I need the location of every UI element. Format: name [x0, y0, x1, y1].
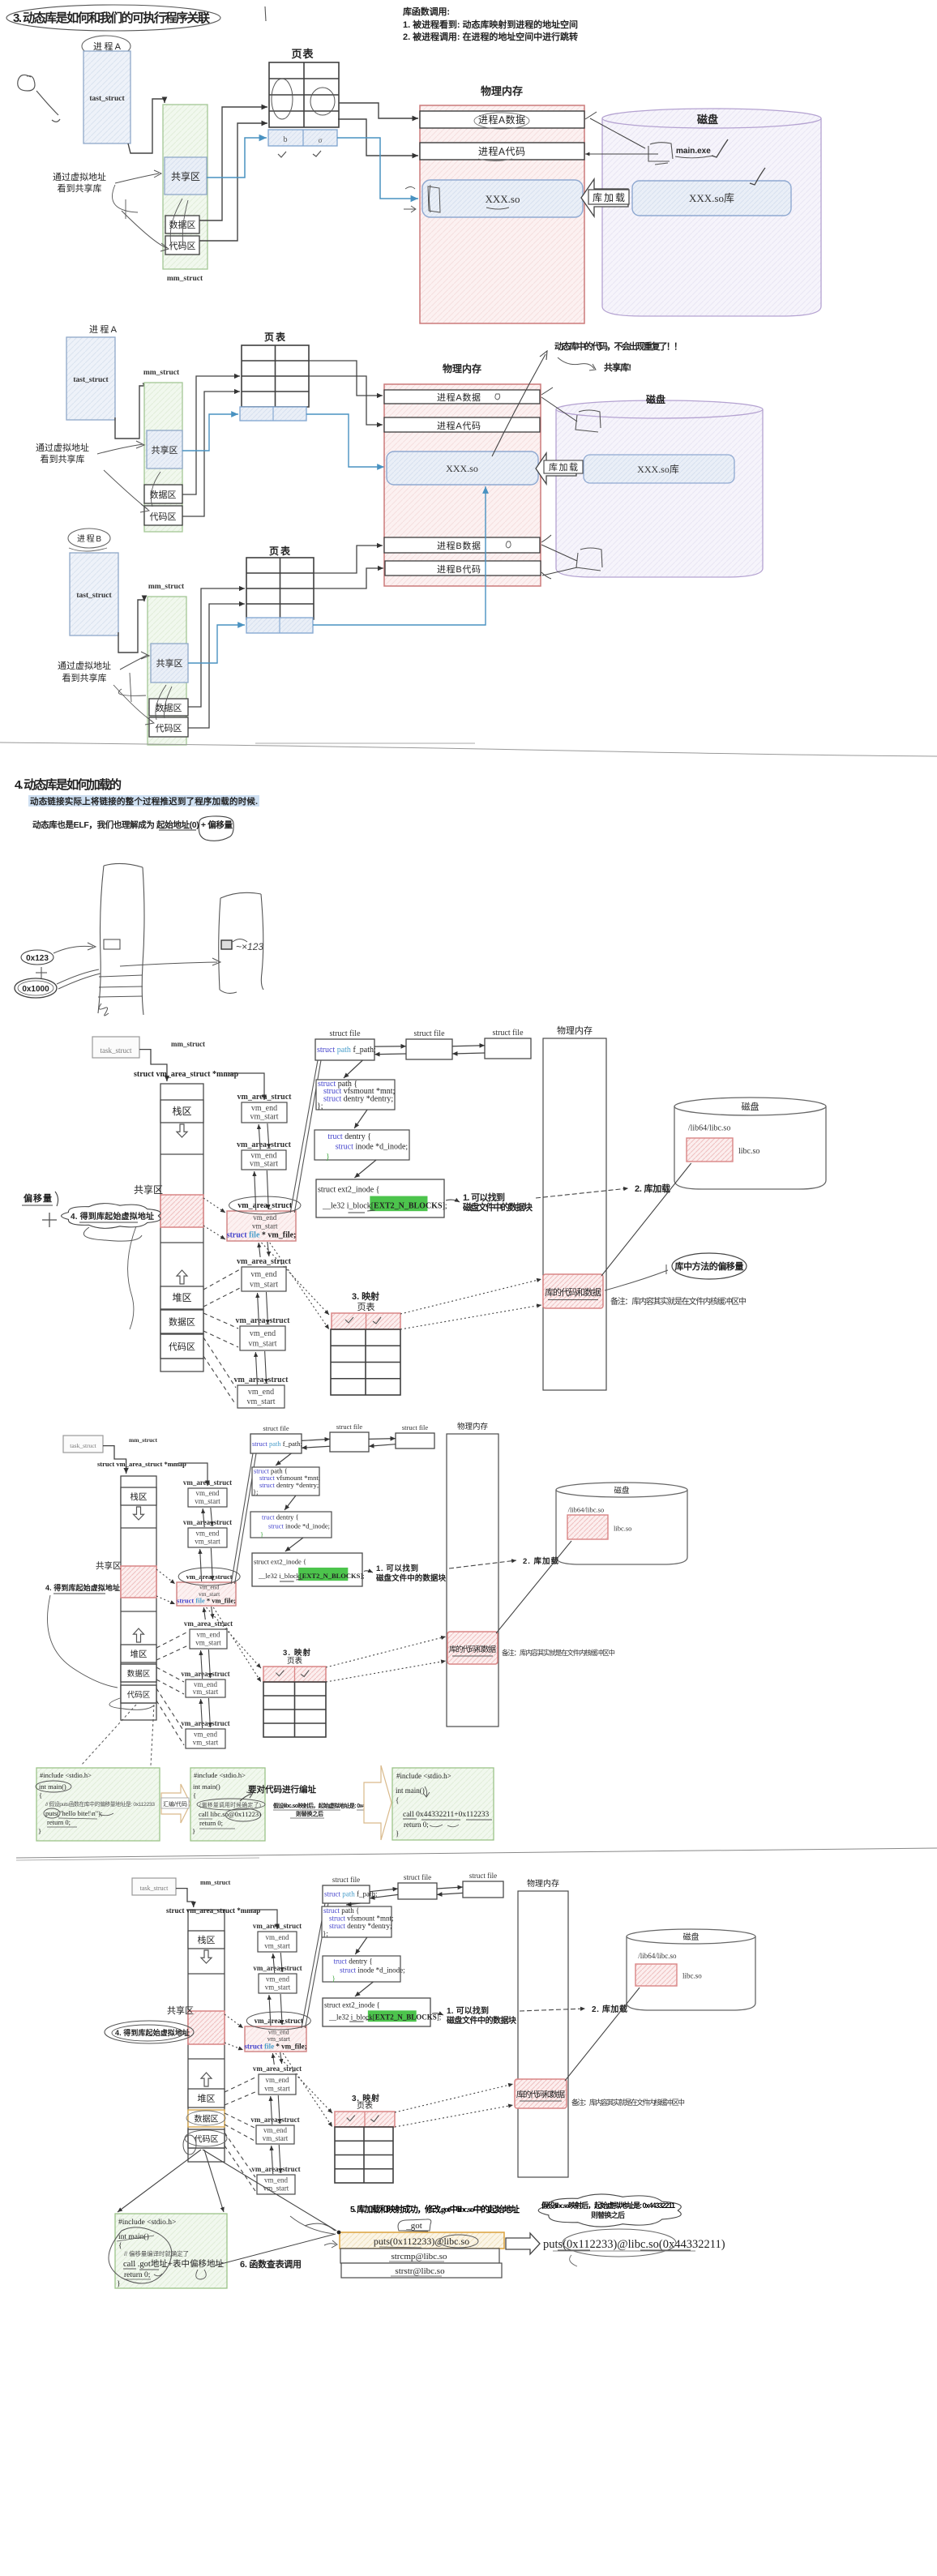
svg-text:#include <stdio.h>: #include <stdio.h>	[118, 2219, 176, 2227]
blue wire 共享区A2 -> blue row A2	[182, 414, 238, 451]
page table grid E	[331, 1329, 400, 1395]
blue wire blue row A2 -> XXX.so 2	[306, 414, 384, 467]
svg-text:__le32 i_block[EXT2_N_BLOCKS]: __le32 i_block[EXT2_N_BLOCKS];	[322, 1201, 447, 1210]
page table red row G	[335, 2112, 395, 2127]
big circle scribble on code box G	[109, 2227, 172, 2283]
svg-text:struct dentry *dentry;: struct dentry *dentry;	[323, 1094, 393, 1103]
dashed 数据区->vm5 E	[203, 1313, 238, 1329]
svg-text:磁盘: 磁盘	[645, 393, 665, 405]
blue wire blue row B -> XXX.so bottom	[313, 486, 486, 625]
svg-text:mm_struct: mm_struct	[148, 583, 185, 591]
check marks in red row E	[345, 1317, 353, 1323]
svg-text:库的代码和数据: 库的代码和数据	[545, 1286, 601, 1298]
svg-text:数据区: 数据区	[156, 702, 182, 713]
sketch lines bottom of left shape	[99, 975, 143, 977]
label box 库加载 (2)	[544, 460, 583, 473]
svg-text:vm_end: vm_end	[266, 2076, 289, 2084]
link vm2-vm3 G	[269, 1995, 271, 2026]
svg-text:struct vm_area_struct *mmap: struct vm_area_struct *mmap	[166, 1906, 260, 1915]
svg-text:vm_start: vm_start	[252, 1222, 278, 1230]
svg-text:1. 可以找到: 1. 可以找到	[447, 2005, 489, 2016]
svg-text:栈区: 栈区	[173, 1105, 192, 1117]
dashed 堆区->vm4 E	[203, 1269, 240, 1290]
svg-text:struct path f_path;: struct path f_path;	[317, 1046, 376, 1055]
green box mm B	[148, 597, 186, 745]
svg-text:struct ext2_inode {: struct ext2_inode {	[324, 2001, 380, 2009]
svg-text:call libc.so@0x11223): call libc.so@0x11223)	[199, 1810, 261, 1818]
underlines in final text	[558, 2249, 691, 2251]
svg-text:磁盘文件中的数据块: 磁盘文件中的数据块	[463, 1201, 533, 1213]
highlighted sentence	[28, 795, 259, 807]
svg-text:task_struct: task_struct	[101, 1046, 132, 1055]
red cell 共享区 F	[121, 1566, 156, 1598]
svg-text:动态库中的代码，不会出现重复了！！: 动态库中的代码，不会出现重复了！！	[554, 340, 682, 352]
svg-text:vm_end: vm_end	[194, 1731, 217, 1739]
svg-text:共享库!: 共享库!	[604, 362, 631, 373]
svg-text:__le32 i_block[EXT2_N_BLOCKS]: __le32 i_block[EXT2_N_BLOCKS];	[258, 1572, 365, 1580]
box 数据区 G	[188, 2110, 225, 2127]
svg-text:puts(0x112233)@libc.so(0x44332: puts(0x112233)@libc.so(0x44332211)	[543, 2238, 725, 2251]
scribble square near main.exe	[648, 143, 673, 161]
svg-text:共享区: 共享区	[156, 657, 183, 669]
wire 数据区B -> ptB	[188, 588, 245, 707]
disk E	[674, 1106, 826, 1189]
link vm3-vm4 E	[259, 1243, 260, 1257]
svg-text:磁盘文件中的数据块: 磁盘文件中的数据块	[447, 2015, 517, 2026]
disk red box libc.so F	[567, 1515, 608, 1539]
svg-text:进程A数据: 进程A数据	[437, 392, 481, 403]
svg-text:/lib64/libc.so: /lib64/libc.so	[638, 1952, 677, 1960]
page table red row F	[263, 1667, 326, 1682]
wire task->mm E	[139, 1050, 167, 1081]
struct dentry box G	[323, 1956, 400, 1982]
box 代码区 B	[149, 717, 188, 737]
task_struct box E	[92, 1037, 139, 1058]
svg-text:通过虚拟地址: 通过虚拟地址	[36, 442, 89, 453]
svg-text:}: }	[326, 1153, 330, 1162]
svg-text:物理内存: 物理内存	[557, 1025, 593, 1036]
hollow arrow 库加载 (2)	[536, 453, 576, 484]
svg-text:2. 库加载: 2. 库加载	[635, 1183, 670, 1194]
svg-text:struct file: struct file	[402, 1423, 429, 1431]
svg-text:vm_start: vm_start	[265, 1983, 291, 1992]
svg-text:libc.so: libc.so	[682, 1972, 702, 1980]
mm_struct outer green box	[163, 105, 208, 269]
svg-text:strstr@libc.so: strstr@libc.so	[395, 2266, 445, 2276]
link vm4-vm5 F	[201, 1650, 203, 1679]
svg-text:vm_end: vm_end	[250, 1270, 276, 1279]
diagonal vm3->file1 F	[231, 1453, 253, 1584]
svg-text:vm_area_struct: vm_area_struct	[253, 1964, 302, 1972]
cell divider G	[188, 1973, 225, 1975]
svg-text:栈区: 栈区	[130, 1491, 148, 1502]
lines bars -> square bottom	[541, 545, 577, 561]
svg-text:堆区: 堆区	[130, 1650, 148, 1659]
svg-text:6. 函数查表调用: 6. 函数查表调用	[240, 2258, 302, 2270]
svg-text:页表: 页表	[264, 331, 286, 343]
diagonal vm3->file1 E	[290, 1060, 318, 1213]
mm column E	[160, 1084, 203, 1371]
svg-text:代码区: 代码区	[156, 723, 182, 734]
svg-text:堆区: 堆区	[198, 2094, 216, 2104]
dotted pt->libbox F	[326, 1637, 446, 1667]
code box 2 rect	[190, 1768, 265, 1841]
svg-text:代码区: 代码区	[127, 1691, 151, 1700]
svg-text:库的代码和数据: 库的代码和数据	[516, 2089, 565, 2099]
svg-text:进程A代码: 进程A代码	[437, 421, 481, 431]
svg-text:vm_area_struct: vm_area_struct	[250, 2116, 299, 2124]
plus sign E	[49, 1213, 50, 1227]
ellipse around 代码区 G	[185, 2130, 227, 2146]
box 数据区 E	[160, 1310, 203, 1333]
svg-text:vm_start: vm_start	[249, 1340, 277, 1349]
svg-text:truct dentry {: truct dentry {	[327, 1132, 371, 1141]
page table A2	[242, 345, 309, 407]
box 数据区 A2	[144, 485, 182, 503]
cell divider E	[160, 1242, 203, 1243]
svg-text:vm_end: vm_end	[196, 1489, 220, 1497]
page table red row E	[332, 1313, 400, 1329]
mm column F	[121, 1476, 156, 1720]
svg-text:物理内存: 物理内存	[457, 1422, 488, 1431]
svg-text:struct file: struct file	[469, 1872, 497, 1880]
svg-text:vm_area_struct: vm_area_struct	[253, 1922, 302, 1930]
svg-text:tast_struct: tast_struct	[89, 95, 125, 103]
arrow file1->path E	[344, 1060, 362, 1078]
svg-text:struct dentry *dentry;: struct dentry *dentry;	[259, 1481, 319, 1489]
.got table row1 puts	[340, 2232, 504, 2249]
title ellipse scribble	[6, 5, 220, 31]
svg-text:vm_start: vm_start	[195, 1639, 221, 1647]
separator line 2	[255, 742, 475, 744]
wire task B -> mm B	[118, 600, 144, 653]
svg-text:vm_area_struct: vm_area_struct	[255, 2017, 303, 2025]
svg-text:struct inode *d_inode;: struct inode *d_inode;	[336, 1142, 409, 1151]
arrow ext2->annotation G	[432, 2013, 443, 2015]
struct path def box G	[322, 1906, 391, 1937]
box 库的代码和数据 G	[515, 2079, 567, 2108]
link vm4-vm5 E	[258, 1293, 259, 1325]
svg-text:备注：库内容其实就是在文件内核缓冲区中: 备注：库内容其实就是在文件内核缓冲区中	[571, 2098, 685, 2107]
scribble arrows B	[120, 652, 149, 670]
svg-text:vm_area_struct: vm_area_struct	[235, 1316, 290, 1325]
code box 3 rect	[392, 1768, 494, 1840]
box 栈区 F	[121, 1487, 156, 1505]
link vm3-vm4 G	[272, 2053, 274, 2065]
svg-text:共享区: 共享区	[134, 1183, 163, 1196]
line libbox->bubble E	[605, 1264, 668, 1290]
wire task->mm F	[103, 1446, 126, 1474]
page table A scribbled zeros	[272, 79, 293, 119]
svg-text:磁盘: 磁盘	[742, 1101, 759, 1112]
svg-text:vm_end: vm_end	[266, 1933, 289, 1941]
checkmark above XXX.so库	[750, 168, 765, 185]
svg-text:#include <stdio.h>: #include <stdio.h>	[194, 1771, 246, 1779]
link vm2-vm3 E	[255, 1171, 256, 1210]
svg-text:vm_area_struct: vm_area_struct	[233, 1376, 289, 1384]
curved arrow to annotation	[492, 351, 547, 456]
svg-text:vm_end: vm_end	[264, 2176, 288, 2184]
svg-text:代码区: 代码区	[195, 2135, 219, 2145]
struct ext2_inode box F	[252, 1553, 362, 1586]
box XXX.so (A mem)	[422, 180, 583, 217]
svg-text:堆区: 堆区	[173, 1292, 192, 1303]
sketch left tall shape	[98, 866, 104, 1013]
box 代码区 G	[188, 2129, 225, 2148]
box tast_struct A2	[66, 337, 115, 420]
struct dentry box F	[250, 1512, 332, 1538]
svg-text:XXX.so库: XXX.so库	[689, 192, 734, 204]
svg-text:{: {	[396, 1796, 399, 1804]
svg-text:页表: 页表	[287, 1656, 302, 1666]
dotted 共享区cell->vm3 E	[203, 1198, 225, 1213]
svg-text:vm_area_struct: vm_area_struct	[237, 1093, 292, 1102]
blue wire 共享区B -> blue row B	[188, 625, 245, 663]
svg-text:vm_area_struct: vm_area_struct	[253, 2065, 302, 2073]
struct path def box E	[316, 1080, 395, 1110]
svg-text:struct path {: struct path {	[323, 1906, 359, 1915]
bubble 库中方法的偏移量 E	[672, 1253, 747, 1279]
ellipse around 偏移量	[199, 816, 233, 841]
svg-text:共享区: 共享区	[171, 170, 200, 182]
svg-text:vm_start: vm_start	[264, 1942, 290, 1950]
dashed arrow ->2.库加载 E	[536, 1188, 628, 1198]
svg-text:数据区: 数据区	[169, 1316, 195, 1328]
svg-text:通过虚拟地址: 通过虚拟地址	[58, 660, 111, 671]
svg-text:vm_area_struct: vm_area_struct	[237, 1257, 292, 1266]
arrow dentry->ext2 G	[355, 1982, 374, 1996]
svg-text:#include <stdio.h>: #include <stdio.h>	[396, 1772, 451, 1780]
dotted vm3->pt E	[262, 1243, 330, 1315]
dotted pt->libbox E	[400, 1279, 541, 1314]
svg-text:vm_area_struct: vm_area_struct	[183, 1518, 232, 1526]
svg-text:task_struct: task_struct	[70, 1442, 96, 1449]
cell divider G	[188, 2058, 225, 2060]
arrows file2-file3 G	[437, 1887, 463, 1889]
arrows file1-file2 F	[302, 1439, 330, 1440]
svg-text:libc.so: libc.so	[738, 1147, 759, 1156]
svg-text:vm_end: vm_end	[266, 1975, 289, 1983]
svg-text:/lib64/libc.so: /lib64/libc.so	[568, 1505, 605, 1513]
tick mark	[265, 6, 266, 21]
svg-text:int main(): int main()	[39, 1782, 66, 1791]
box 堆区 G	[188, 2089, 225, 2107]
arrows file1-file2 G	[370, 1889, 398, 1892]
svg-text:// 偏移量编译时就确定了: // 偏移量编译时就确定了	[124, 2249, 189, 2257]
link vm5-vm6 F	[201, 1699, 203, 1728]
scribble arrows around 共享区	[115, 170, 161, 183]
svg-text:{: {	[193, 1791, 196, 1799]
red region 物理内存 (2)	[384, 384, 541, 586]
svg-text:代码区: 代码区	[169, 1341, 195, 1352]
wire ptB -> 进程B数据	[314, 546, 383, 573]
svg-text:数据区: 数据区	[127, 1669, 151, 1679]
box 共享区 (A)	[165, 157, 207, 195]
svg-text:1. 可以找到: 1. 可以找到	[376, 1564, 418, 1573]
svg-text:物理内存: 物理内存	[443, 362, 481, 374]
box 代码区 (A)	[165, 236, 199, 255]
svg-text:XXX.so库: XXX.so库	[637, 463, 679, 475]
svg-text:struct vm_area_struct *mmap: struct vm_area_struct *mmap	[134, 1070, 239, 1079]
svg-text:库加载: 库加载	[593, 191, 625, 203]
bar 进程A代码 (2)	[384, 417, 540, 432]
wire 数据区A -> page table row3	[199, 107, 267, 220]
svg-text:struct file: struct file	[263, 1424, 289, 1432]
disk red box libc.so G	[635, 1964, 677, 1986]
svg-text:main.exe: main.exe	[676, 147, 711, 156]
dashed 堆区->vm4 F	[156, 1632, 188, 1648]
svg-text:共享区: 共享区	[167, 2005, 194, 2016]
green code box G	[115, 2214, 227, 2288]
svg-text:代码区: 代码区	[150, 511, 177, 522]
box 数据区 F	[121, 1664, 156, 1682]
svg-text:puts("hello bite!\n");: puts("hello bite!\n");	[45, 1809, 102, 1817]
svg-text:代码区: 代码区	[169, 241, 196, 251]
dashed 代码区F -> code box1	[81, 1705, 136, 1765]
wire task A2 -> mm A2	[115, 386, 145, 439]
svg-text:struct path f_path;: struct path f_path;	[252, 1440, 302, 1448]
arrow path->dentry E	[354, 1110, 367, 1128]
svg-text:进程A: 进程A	[89, 324, 118, 335]
svg-text:库的代码和数据: 库的代码和数据	[449, 1645, 497, 1654]
scribble arrows A2	[97, 441, 144, 454]
box 栈区 E	[160, 1100, 203, 1123]
svg-text:看到共享库: 看到共享库	[58, 182, 102, 194]
link vm3-vm4 F	[203, 1607, 205, 1620]
dashed arrow ->2.库加载 G	[520, 2009, 585, 2011]
svg-text:vm_start: vm_start	[250, 1160, 278, 1169]
curve scribble below F	[48, 1595, 118, 1688]
sketch right shape	[219, 892, 263, 993]
blue wire blue row -> XXX.so	[337, 138, 418, 199]
link vm5-vm6 E	[255, 1352, 257, 1384]
svg-text:0x1000: 0x1000	[22, 985, 49, 994]
arrow file1->path G	[346, 1903, 360, 1905]
ellipse scribble 4.得到库起始虚拟地址 G	[105, 2021, 194, 2043]
line call -> got table	[215, 2234, 336, 2266]
svg-text:struct inode *d_inode;: struct inode *d_inode;	[340, 1966, 405, 1974]
svg-text:~×123: ~×123	[236, 941, 263, 952]
ellipse 0x123	[21, 950, 53, 965]
green box mm A2	[144, 383, 182, 532]
dashed 代码区->vm6 G	[225, 2133, 255, 2177]
arrow dentry->ext2 F	[285, 1538, 303, 1551]
box 物理内存 (A) red region	[420, 105, 584, 323]
svg-text:task_struct: task_struct	[140, 1885, 169, 1892]
svg-text:struct file: struct file	[404, 1873, 431, 1881]
svg-text:vm_end: vm_end	[251, 1104, 277, 1113]
svg-text:共享区: 共享区	[96, 1560, 122, 1571]
物理内存 box F	[447, 1434, 498, 1727]
arrow bar A data right edge	[585, 153, 658, 155]
label 进程A (ellipse)	[82, 36, 130, 57]
blue wire 共享区A -> blue row	[207, 138, 267, 178]
svg-text:struct file * vm_file;: struct file * vm_file;	[244, 2042, 306, 2050]
svg-text:备注：库内容其实就是在文件内核缓冲区中: 备注：库内容其实就是在文件内核缓冲区中	[610, 1296, 747, 1307]
arrows 代码区G -> code box G	[118, 2150, 201, 2212]
svg-text:mm_struct: mm_struct	[129, 1436, 157, 1444]
svg-text:}: }	[332, 1975, 336, 1983]
svg-text:struct file * vm_file;: struct file * vm_file;	[177, 1597, 236, 1605]
line red box -> main.exe square	[590, 118, 645, 148]
wire task->mm G	[176, 1889, 194, 1907]
box 代码区 A2	[144, 506, 182, 525]
cell divider F	[121, 1527, 156, 1529]
line bars->square top	[541, 397, 577, 421]
wire 数据区A2 -> pt	[182, 376, 240, 494]
arrows file2-file3 F	[369, 1438, 396, 1440]
svg-text:磁盘: 磁盘	[697, 113, 718, 126]
svg-text:libc.so: libc.so	[614, 1525, 631, 1533]
svg-text:XXX.so: XXX.so	[486, 193, 520, 205]
svg-text:vm_start: vm_start	[247, 1397, 276, 1406]
ellipse around 数据区 G	[186, 2111, 225, 2125]
dashed 堆区->vm4 G	[225, 2077, 257, 2092]
separator line below code boxes	[16, 1848, 937, 1858]
物理内存 box G	[518, 1891, 568, 2177]
arrow dentry->ext2 E	[354, 1160, 376, 1178]
svg-text:puts(0x112233)@libc.so: puts(0x112233)@libc.so	[374, 2236, 469, 2247]
svg-text:3. 动态库是如何和我们的可执行程序关联: 3. 动态库是如何和我们的可执行程序关联	[13, 11, 211, 25]
line libbox->diskred E	[601, 1163, 691, 1276]
struct ext2_inode box G	[323, 1998, 430, 2026]
bar 进程B代码	[385, 561, 541, 576]
disk F	[556, 1490, 687, 1564]
disk body A	[602, 118, 821, 316]
scribble loop top-left	[18, 75, 35, 91]
task_struct box F	[63, 1436, 103, 1453]
svg-text:}: }	[117, 2280, 121, 2288]
down hollow arrow E	[177, 1124, 187, 1137]
dashed 代码区->vm6 E	[203, 1337, 236, 1388]
small arrow left of table	[324, 2240, 337, 2248]
junction dot at table corner	[337, 2231, 341, 2235]
wire page table A -> 进程A代码	[338, 119, 418, 156]
bar 进程A代码	[420, 143, 584, 160]
box tast_struct (process A)	[83, 51, 130, 143]
svg-text:{: {	[39, 1791, 42, 1799]
dashed 数据区->vm5 F	[156, 1667, 184, 1682]
svg-text:vm_area_struct: vm_area_struct	[181, 1719, 229, 1727]
code box 1 rect	[36, 1768, 160, 1841]
box 库的代码和数据 E	[543, 1274, 603, 1308]
svg-text:}: }	[38, 1827, 41, 1835]
down hollow arrow G	[201, 1950, 212, 1963]
box 数据区 B	[149, 699, 188, 716]
svg-text:看到共享库: 看到共享库	[62, 672, 107, 683]
svg-text:偏移量: 偏移量	[24, 1192, 52, 1204]
svg-text:return 0;: return 0;	[199, 1819, 223, 1827]
svg-text:共享区: 共享区	[152, 444, 178, 456]
red cell 共享区 G	[188, 2011, 225, 2044]
dashed 代码区->vm6 F	[156, 1688, 184, 1731]
cloud 假设libc.so映射后	[538, 2194, 681, 2227]
dotted pt->libbox G	[395, 2084, 513, 2112]
svg-text:进程A: 进程A	[93, 41, 122, 52]
dotted 共享区cell->vm3 G	[225, 2014, 243, 2028]
svg-text:};: };	[253, 1488, 258, 1496]
ellipse 0x1000	[15, 978, 57, 998]
wire page table A -> 进程A数据	[339, 103, 418, 118]
svg-text:磁盘: 磁盘	[683, 1932, 700, 1942]
svg-text:_got: _got	[405, 2221, 422, 2231]
svg-text:struct file: struct file	[492, 1029, 524, 1038]
svg-text:库函数调用:: 库函数调用:	[403, 6, 450, 17]
svg-text:tast_struct: tast_struct	[76, 592, 112, 600]
svg-text:strcmp@libc.so: strcmp@libc.so	[391, 2252, 447, 2261]
check marks under blue row	[278, 152, 286, 157]
svg-text:vm_area_struct: vm_area_struct	[181, 1670, 229, 1678]
